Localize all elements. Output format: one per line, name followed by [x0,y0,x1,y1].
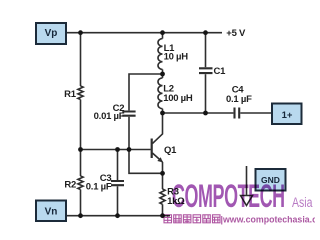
wire C4 to 1+ box [240,112,271,114]
svg-text:COMPOTECH: COMPOTECH [172,180,285,215]
node C3 top [115,147,120,152]
node C3 bottom [115,213,120,218]
wire C2/base node down to emitter [129,150,163,174]
svg-text:R2: R2 [64,179,76,190]
wire left rail upper (Vp junction to R1) [80,33,82,86]
wire bottom rail [67,215,170,217]
resistor R1 [78,86,83,100]
ground symbol lead [246,166,248,196]
wire L1-L2 link [162,69,164,78]
wire left rail lower (R2 to bottom rail) [80,190,82,216]
wire left rail middle (R1 to R2) [80,100,82,177]
svg-text:Asia: Asia [292,194,313,210]
svg-text:10 µH: 10 µH [164,51,189,62]
inductor L1 [158,39,163,70]
capacitor C1 [199,68,213,73]
svg-text:R1: R1 [64,89,77,100]
node Vp junction [78,30,83,35]
transistor Q1 [151,139,153,159]
ground symbol triangle [241,196,253,206]
node L1-L2 tap [160,72,165,77]
node bottom Vn [78,213,83,218]
wire C1 branch top [205,33,207,67]
watermark COMPOTECH Asia [164,180,320,224]
wire emitter junction to R3 [162,173,164,189]
node bias/base left [78,147,83,152]
node emitter [160,171,165,176]
wire top rail +5V [66,32,222,34]
watermark CJK glyph blocks [164,215,220,223]
node C2 bottom [127,147,132,152]
svg-text:Vn: Vn [45,206,58,217]
svg-text:+5 V: +5 V [226,28,246,39]
terminal box Vn [36,201,66,222]
resistor R2 [78,176,83,190]
wire R3 to bottom rail [162,204,164,215]
svg-text:0.01 µF: 0.01 µF [94,111,125,122]
terminal box Vp [36,23,66,44]
wire C3 branch [117,150,119,181]
svg-text:1+: 1+ [282,110,293,121]
terminal box GND [256,169,286,191]
wire C2 branch from L1-L2 tap [129,74,163,110]
svg-text:100 µH: 100 µH [163,93,193,104]
svg-text:0.1 µF: 0.1 µF [226,94,252,105]
capacitor C3 [111,181,124,185]
capacitor C4 [235,108,240,119]
svg-text:|www.compotechasia.com: |www.compotechasia.com [221,214,316,224]
node C1 bottom [203,111,208,116]
wire output rail to C4 [163,112,234,114]
terminal box 1+ [272,104,302,125]
svg-text:Q1: Q1 [164,145,177,156]
wire emitter to junction [162,162,164,176]
svg-text:C1: C1 [214,66,227,77]
capacitor C2 [122,112,135,116]
wire base from bias node [81,149,151,151]
node collector/output [160,111,165,116]
wire inductor column top stub [162,33,164,39]
wire C3 bottom [117,186,119,215]
node C1 top [203,30,208,35]
inductor L2 [158,78,163,109]
transistor Q1 emitter arrowhead [157,157,163,162]
node L1 top [160,30,165,35]
resistor R3 [160,189,165,204]
svg-text:0.1 µF: 0.1 µF [86,181,112,192]
svg-text:Vp: Vp [45,28,58,39]
wire C2 bottom to base node [128,117,130,150]
node R3 bottom [160,213,165,218]
wire C1 bottom [205,74,207,113]
wire L2 bottom stub [162,109,164,113]
